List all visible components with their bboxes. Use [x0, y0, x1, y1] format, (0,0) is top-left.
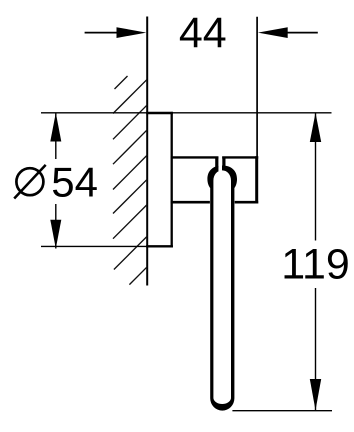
extension line, right (dimension 44): [256, 17, 258, 157]
dimension 119 line, upper segment with up arrow: [310, 113, 321, 241]
wall hatching: [113, 76, 147, 285]
extension line, ring bottom (dimension 119): [232, 410, 332, 412]
wall surface line (also left extension line of dimension 44): [146, 17, 148, 286]
svg-text:44: 44: [179, 9, 227, 57]
dimension 44 right arrow: [258, 27, 318, 38]
dimension 44 left arrow: [85, 27, 147, 38]
dimension 119 line, lower segment with down arrow: [310, 288, 321, 410]
bracket arm: [171, 156, 259, 203]
mounting plate (side view, Ø54 rosette): [146, 112, 173, 248]
ring pivot pin: [217, 157, 224, 168]
dimension Ø54 line, upper segment with up arrow: [50, 113, 61, 159]
pivot slot (white gap between pin and hook): [218, 159, 222, 171]
hanging ring (cross-section silhouette with hook, bar and rounded end): [207, 166, 237, 411]
extension line, plate bottom (dimension Ø54): [41, 245, 173, 247]
svg-text:54: 54: [51, 159, 98, 206]
dimension Ø54 line, lower segment with down arrow: [50, 204, 61, 249]
svg-text:119: 119: [281, 241, 350, 289]
extension line, top (shared by dimension Ø54 and dimension 119): [41, 112, 332, 114]
diameter symbol Ø: [14, 165, 46, 199]
